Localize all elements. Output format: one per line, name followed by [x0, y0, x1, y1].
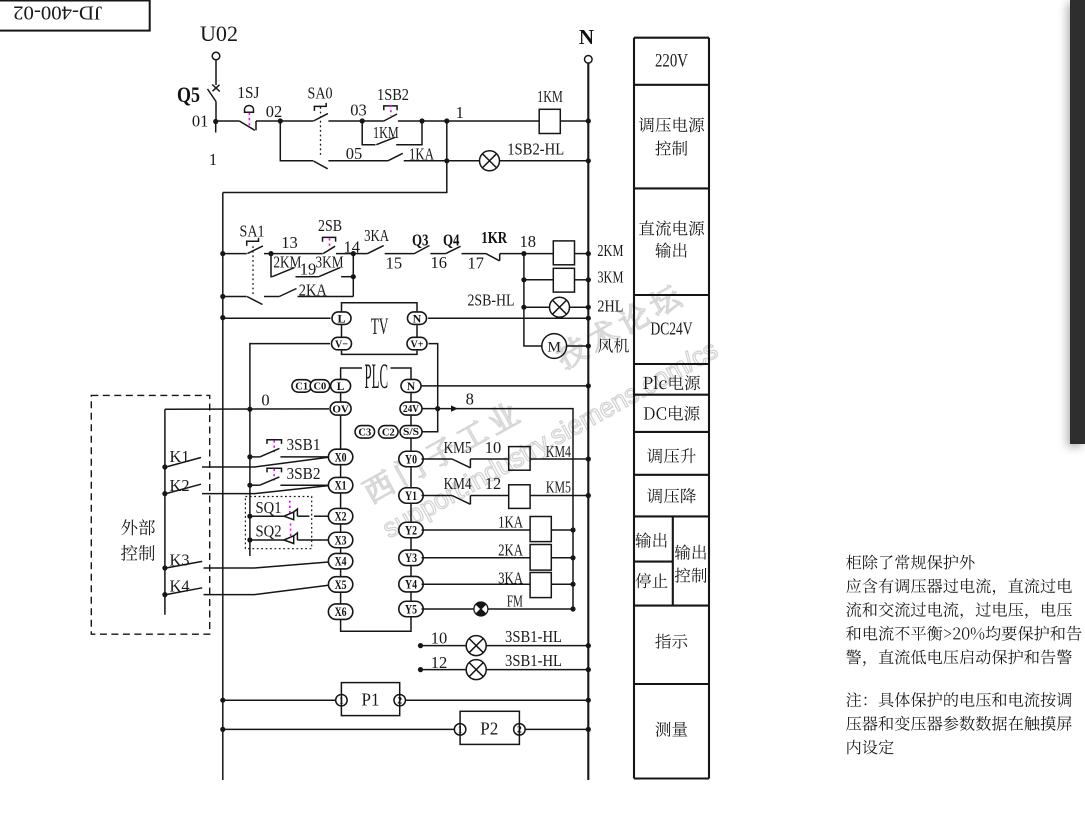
svg-text:1KR: 1KR: [481, 228, 508, 247]
svg-text:X2: X2: [335, 509, 347, 524]
svg-text:JD-400-02: JD-400-02: [13, 2, 102, 24]
svg-text:OV: OV: [332, 403, 349, 415]
terminal PLC Y2: [399, 522, 423, 538]
svg-text:SQ1: SQ1: [256, 498, 282, 517]
svg-text:1SB2: 1SB2: [377, 85, 409, 104]
wire SA0 to node 03: [328, 120, 362, 122]
meter P1: [220, 698, 225, 703]
terminal PLC N: [401, 379, 421, 392]
svg-text:17: 17: [467, 254, 484, 273]
terminal TV V-: [332, 337, 352, 350]
external control dashed box: [91, 395, 209, 634]
node 01: [213, 119, 218, 124]
terminal PLC S/S: [400, 426, 422, 439]
svg-text:01: 01: [192, 112, 209, 131]
dotted box SQ group: [245, 497, 311, 549]
wire left-rail to TV L: [220, 315, 225, 320]
coil KM5: [470, 495, 508, 497]
svg-text:19: 19: [300, 260, 317, 279]
svg-text:3KM: 3KM: [316, 253, 344, 272]
svg-text:Y4: Y4: [405, 577, 417, 592]
label external control: [121, 519, 155, 535]
svg-text:24V: 24V: [403, 404, 419, 415]
contact K1: [162, 464, 167, 469]
svg-text:N: N: [407, 381, 416, 393]
node 13: [268, 251, 273, 256]
coil 3KM: [523, 254, 525, 280]
svg-text:Y0: Y0: [405, 451, 417, 466]
legend voltage down: [647, 488, 696, 503]
wire coil 1KM to N bus: [560, 120, 588, 122]
svg-text:P2: P2: [480, 719, 498, 739]
svg-text:SA0: SA0: [308, 84, 333, 103]
coil 2KM: [524, 253, 553, 255]
limit switch SQ1 (X2 row): [247, 514, 252, 519]
junction left-rail row2: [220, 251, 225, 256]
terminal PLC Y5: [399, 601, 423, 617]
wire 1SJ to node 02: [256, 120, 280, 122]
legend Plc power: [643, 375, 700, 390]
junction 1KM-N: [586, 118, 591, 123]
row 05: SA0 lower contact: [280, 121, 313, 161]
svg-text:12: 12: [485, 474, 502, 493]
svg-text:KM5: KM5: [444, 438, 472, 457]
node 14: [351, 251, 356, 256]
legend indication: [655, 634, 687, 649]
terminal PLC OV: [330, 402, 351, 415]
svg-text:Q3: Q3: [412, 230, 429, 249]
svg-text:Y3: Y3: [405, 550, 417, 565]
wire node01 to 1SJ: [216, 120, 240, 122]
svg-text:U02: U02: [200, 21, 238, 46]
terminal TV L: [332, 312, 351, 325]
node 02: [278, 118, 283, 123]
svg-text:2: 2: [517, 726, 522, 736]
terminal TV V+: [407, 337, 427, 350]
wire 1KA to node: [404, 160, 447, 162]
svg-text:X5: X5: [335, 577, 347, 592]
svg-text:15: 15: [386, 254, 403, 273]
svg-text:X1: X1: [335, 478, 347, 493]
svg-text:SQ2: SQ2: [256, 522, 282, 541]
wire node1 to coil 1KM: [447, 120, 539, 122]
legend output: [635, 532, 666, 547]
svg-text:3SB1-HL: 3SB1-HL: [505, 627, 562, 646]
node 0 wire (OV feed): [247, 407, 252, 412]
wire 24V to feeder: [435, 406, 440, 411]
coil KM4: [470, 458, 508, 460]
svg-text:0: 0: [261, 391, 269, 410]
svg-text:3SB1-HL: 3SB1-HL: [505, 651, 562, 670]
svg-text:KM4: KM4: [546, 442, 571, 461]
terminal PLC X3: [328, 532, 352, 548]
svg-text:1SJ: 1SJ: [237, 83, 260, 102]
legend output control: [675, 544, 706, 559]
terminal PLC C0: [310, 380, 330, 393]
svg-text:1: 1: [458, 726, 463, 736]
svg-text:03: 03: [350, 101, 367, 120]
svg-text:M: M: [548, 340, 561, 356]
wire TV V- to 0V node: [250, 344, 330, 410]
switch SA1 lower contact + contact 2KA row: [220, 294, 225, 299]
wire S/S up to 24V node: [423, 409, 438, 432]
svg-text:X6: X6: [335, 604, 347, 619]
svg-text:3KM: 3KM: [597, 267, 623, 286]
wire below node 01 (phase stub): [215, 122, 217, 133]
terminal PLC Y0: [399, 451, 423, 467]
svg-text:1: 1: [209, 150, 217, 169]
svg-text:L: L: [337, 311, 345, 325]
svg-text:FM: FM: [507, 592, 523, 611]
svg-text:DC24V: DC24V: [651, 319, 693, 339]
left rail vertical: [222, 193, 224, 781]
svg-text:KM4: KM4: [444, 474, 472, 493]
svg-text:05: 05: [346, 144, 363, 163]
svg-text:2: 2: [397, 697, 402, 707]
wire 05 to 1KA: [328, 160, 388, 162]
svg-text:C2: C2: [382, 427, 395, 438]
legend regulated power control: [639, 117, 704, 132]
junction hold-branch node14: [351, 274, 356, 279]
label fan: [598, 338, 629, 353]
node 1KM-join: [419, 118, 424, 123]
PLC input chain verticals: [340, 393, 342, 402]
terminal PLC X6: [328, 604, 352, 620]
svg-text:Y1: Y1: [405, 488, 417, 503]
terminal PLC C3: [355, 426, 375, 439]
wire node02 to SA0: [280, 120, 313, 122]
svg-text:Q5: Q5: [177, 82, 200, 107]
svg-text:02: 02: [266, 102, 283, 121]
motor M (fan): [524, 307, 542, 346]
svg-text:TV: TV: [371, 314, 389, 339]
terminal U02: [212, 52, 220, 60]
svg-text:V+: V+: [411, 338, 424, 350]
contact K4: [162, 592, 167, 597]
svg-text:C3: C3: [358, 427, 371, 438]
svg-text:KM5: KM5: [546, 477, 571, 496]
svg-text:N: N: [413, 311, 422, 325]
terminal PLC X1: [328, 477, 352, 493]
svg-text:10: 10: [431, 629, 448, 648]
svg-text:X0: X0: [335, 449, 347, 464]
pushbutton 3SB2 (X1 row): [247, 483, 252, 488]
svg-text:1SB2-HL: 1SB2-HL: [507, 140, 564, 159]
terminal PLC X2: [328, 508, 352, 524]
PLC output chain verticals: [410, 393, 412, 402]
wire U02 down to Q5: [215, 60, 217, 85]
svg-text:2KM: 2KM: [597, 241, 623, 260]
svg-text:L: L: [337, 381, 345, 393]
svg-text:X3: X3: [335, 532, 347, 547]
node 18: [521, 251, 526, 256]
svg-text:Q4: Q4: [443, 230, 460, 249]
svg-text:2KA: 2KA: [498, 541, 523, 560]
title block box: [0, 1, 150, 31]
svg-text:1KM: 1KM: [537, 87, 563, 106]
notes paragraph: [846, 555, 974, 570]
svg-text:2SB-HL: 2SB-HL: [468, 290, 515, 309]
svg-text:N: N: [579, 25, 594, 49]
junction HL-N: [586, 158, 591, 163]
svg-text:Y2: Y2: [405, 522, 417, 537]
svg-text:V−: V−: [335, 338, 348, 350]
svg-text:C1: C1: [295, 381, 308, 392]
node 03: [360, 118, 365, 123]
pushbutton 3SB1 (X0 row): [247, 454, 252, 459]
svg-text:1: 1: [339, 697, 344, 707]
contact K3: [162, 565, 167, 570]
terminal TV N: [408, 312, 427, 325]
arrow on 24V wire: [451, 405, 458, 411]
terminal PLC 24V: [400, 402, 422, 415]
svg-text:1KM: 1KM: [373, 123, 399, 142]
bus N vertical: [587, 63, 589, 780]
svg-text:2HL: 2HL: [597, 297, 623, 316]
wire return row to left rail: [223, 161, 447, 193]
svg-text:2SB: 2SB: [318, 216, 342, 235]
legend measurement: [656, 722, 688, 737]
svg-text:16: 16: [430, 253, 447, 272]
svg-text:220V: 220V: [655, 51, 688, 72]
svg-text:2KM: 2KM: [273, 253, 301, 272]
0V feeder rail: [249, 409, 251, 556]
svg-text:8: 8: [466, 390, 474, 409]
svg-text:S/S: S/S: [403, 427, 419, 438]
junction row05-node1: [444, 158, 449, 163]
terminal PLC L: [331, 379, 351, 392]
svg-text:1: 1: [456, 103, 464, 122]
legend DC power output: [639, 220, 704, 236]
svg-text:13: 13: [281, 233, 298, 252]
legend column grid: [634, 38, 709, 779]
terminal PLC Y3: [399, 550, 423, 566]
terminal PLC C1: [292, 380, 312, 393]
svg-text:SA1: SA1: [240, 222, 265, 241]
svg-text:support.industry.siemens.com/c: support.industry.siemens.com/cs: [377, 334, 722, 543]
svg-text:X4: X4: [335, 554, 347, 569]
legend DC power: [644, 406, 700, 421]
wire TV N to N bus: [428, 317, 588, 319]
svg-text:3SB1: 3SB1: [287, 435, 321, 454]
svg-text:10: 10: [485, 438, 502, 457]
legend voltage up: [647, 448, 696, 463]
terminal PLC X0: [328, 449, 352, 465]
indicator lamp 3SB1-HL (row 10): [418, 643, 423, 648]
svg-text:18: 18: [519, 232, 536, 251]
terminal PLC X5: [328, 577, 352, 593]
terminal PLC X4: [328, 553, 352, 569]
limit switch SQ2 (X3 row): [247, 537, 252, 542]
terminal PLC Y4: [399, 576, 423, 592]
page edge black bar: [1070, 0, 1085, 444]
legend stop: [636, 573, 668, 588]
node 1: [444, 118, 449, 123]
wire 1SB2 to node (1KM join): [362, 120, 384, 122]
svg-text:3KA: 3KA: [364, 226, 389, 245]
terminal PLC Y1: [399, 488, 423, 504]
svg-text:PLC: PLC: [365, 356, 389, 396]
svg-text:1KA: 1KA: [498, 513, 523, 532]
junction 2KM-N: [586, 251, 591, 256]
svg-text:Y5: Y5: [405, 601, 417, 616]
wire to node 1: [422, 120, 447, 122]
wire PLC N to bus: [422, 385, 589, 387]
svg-text:P1: P1: [362, 690, 380, 710]
meter P2: [220, 727, 225, 732]
wire TV V+ down to 24V node: [429, 344, 438, 409]
terminal PLC C2: [379, 426, 399, 439]
indicator lamp 3SB1-HL (row 12): [418, 667, 423, 672]
contact K2: [162, 491, 167, 496]
svg-text:3SB2: 3SB2: [287, 464, 321, 483]
svg-text:C0: C0: [313, 381, 326, 392]
K contact rail: [164, 409, 166, 615]
watermark: [346, 278, 722, 544]
